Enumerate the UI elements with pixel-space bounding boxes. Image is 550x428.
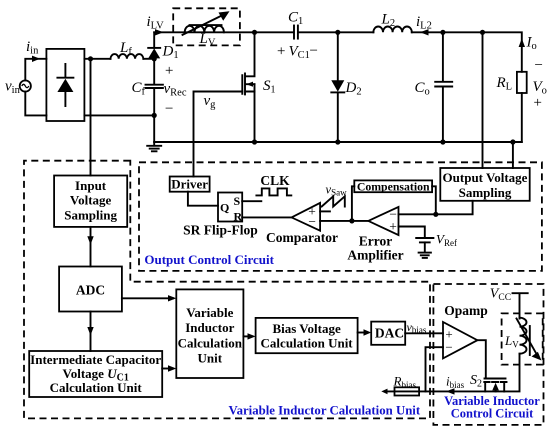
svg-text:Inductor: Inductor: [185, 320, 234, 335]
resistor RL: [517, 72, 527, 93]
svg-text:Calculation Unit: Calculation Unit: [50, 380, 143, 395]
svg-text:−: −: [309, 43, 319, 59]
box driver: [170, 177, 210, 192]
box DAC: [371, 322, 405, 345]
box compensation: [354, 180, 432, 192]
wire S input: [242, 200, 261, 202]
svg-text:Calculation: Calculation: [178, 336, 243, 351]
svg-text:CLK: CLK: [260, 173, 290, 188]
svg-text:−: −: [164, 101, 174, 117]
svg-text:−: −: [445, 340, 452, 355]
svg-text:Opamp: Opamp: [444, 303, 488, 318]
wire to input voltage sampling: [90, 59, 92, 176]
wire rail to C1: [255, 31, 294, 33]
box intermediate capacitor voltage UC1 calculation unit: [29, 351, 162, 397]
vcc T symbol: [513, 293, 528, 318]
node D2 bottom on rail: [335, 139, 340, 144]
diode D1: [148, 32, 160, 59]
wire UC1 calc to variable inductor calculation unit: [162, 368, 173, 370]
svg-text:Comparator: Comparator: [266, 230, 338, 245]
svg-text:Output Control Circuit: Output Control Circuit: [144, 252, 274, 267]
dashed box output control circuit: [139, 162, 542, 271]
inductor L2: [373, 26, 411, 32]
arrow Io: [519, 39, 525, 48]
wire vin bottom to rectifier: [25, 92, 46, 116]
svg-text:Unit: Unit: [198, 351, 223, 366]
svg-text:−: −: [534, 58, 544, 74]
box output voltage sampling: [440, 168, 529, 201]
capacitor C1: [294, 26, 298, 39]
node compensation tap: [349, 218, 354, 223]
ground: [147, 142, 161, 151]
node error amp - input: [433, 212, 438, 217]
box input voltage sampling: [54, 176, 127, 227]
box ADC: [59, 267, 122, 312]
wire rail to RL: [483, 32, 522, 72]
svg-text:+: +: [276, 44, 286, 60]
inductor Lf: [111, 54, 144, 59]
svg-text:Q: Q: [220, 201, 229, 215]
bottom rail: [154, 141, 522, 143]
node output sense top: [480, 30, 485, 35]
wire tap to compensation: [352, 186, 354, 221]
svg-text:R: R: [234, 209, 243, 223]
wire R input from comparator: [242, 216, 291, 218]
svg-text:Driver: Driver: [171, 177, 208, 192]
wire opamp output to S2 gate: [477, 340, 485, 377]
ac source vin: [20, 80, 31, 91]
wire bottom sense to output voltage sampling: [512, 142, 514, 168]
wire ibias line: [386, 390, 505, 392]
svg-text:Sampling: Sampling: [459, 185, 512, 200]
capacitor Cf: [146, 59, 163, 116]
arrow iLV: [155, 29, 164, 35]
wire vin top to rectifier: [25, 59, 46, 81]
wire top rail left: [154, 31, 254, 33]
wire rail D2 to L2: [338, 31, 374, 33]
variable inductor LV: [183, 11, 230, 35]
battery VRef: [416, 238, 433, 252]
svg-text:Amplifier: Amplifier: [347, 248, 403, 263]
svg-text:−: −: [308, 214, 316, 229]
wire DAC to opamp +: [405, 332, 443, 334]
node output sense bottom: [510, 139, 515, 144]
node rectifier output: [88, 56, 93, 61]
svg-text:Bias Voltage: Bias Voltage: [272, 321, 340, 336]
svg-text:Output Voltage: Output Voltage: [443, 170, 528, 185]
op-amp error amplifier: [368, 207, 398, 235]
mosfet S1: [242, 32, 254, 142]
node S1 drain / C1 left: [252, 30, 257, 35]
wire opamp - input: [426, 347, 444, 391]
diode D2: [331, 32, 344, 142]
rectifier diode symbol: [57, 64, 73, 106]
svg-text:+: +: [164, 63, 174, 79]
wire sense top to output voltage sampling: [482, 32, 484, 168]
arrow iL2: [420, 29, 429, 35]
wire IVS to ADC with arrow: [90, 227, 92, 267]
wire comparator - to error amp: [320, 220, 368, 222]
svg-text:DAC: DAC: [375, 326, 404, 341]
svg-text:Calculation Unit: Calculation Unit: [261, 336, 354, 351]
arrow ibias: [446, 388, 455, 394]
svg-text:Sampling: Sampling: [64, 207, 117, 222]
dashed region variable inductor calculation unit: [24, 161, 430, 419]
wire rail Co to sampling node: [443, 31, 483, 33]
svg-text:Variable: Variable: [186, 305, 233, 320]
svg-text:Input: Input: [75, 178, 107, 193]
svg-text:Error: Error: [359, 234, 393, 249]
wire LV bottom to S2: [504, 354, 519, 392]
resistor Rbias: [395, 387, 420, 395]
svg-text:ADC: ADC: [76, 283, 105, 298]
arrow wire end left: [381, 389, 387, 395]
node Cf bottom: [152, 113, 157, 118]
node D1 anode / Cf top: [152, 56, 157, 61]
box variable inductor calculation unit: [176, 289, 243, 378]
wire Cf bottom to ground rail: [153, 115, 155, 142]
wire gate vg: [194, 92, 243, 177]
node D2 top: [335, 30, 340, 35]
capacitor Co: [435, 32, 452, 142]
node S1 source on rail: [252, 139, 257, 144]
wire C1 to D2 node: [299, 31, 338, 33]
dashed box variable inductor control circuit: [433, 284, 543, 425]
wire ADC to variable inductor calculation unit: [122, 297, 173, 299]
wire bias to DAC: [358, 332, 368, 334]
op-amp U opamp: [443, 322, 477, 358]
wire VICU to bias voltage calculation: [243, 335, 252, 337]
wire comparator + stub: [320, 210, 330, 212]
rectifier bridge box: [46, 49, 84, 121]
wire RL bottom to rail: [521, 93, 523, 142]
wire compensation right to - line: [432, 186, 436, 214]
wire error amp - input to sampling: [399, 201, 473, 215]
sawtooth vsaw: [322, 196, 345, 206]
dashed box LV right: [502, 313, 543, 364]
wire ADC to UC1 calculation with arrow: [90, 312, 92, 352]
box SR flip-flop: [218, 193, 242, 222]
variable inductor LV right: [517, 318, 542, 361]
svg-text:+: +: [533, 95, 543, 111]
svg-text:SR Flip-Flop: SR Flip-Flop: [183, 223, 258, 238]
wire driver to SR flip-flop: [188, 192, 218, 206]
svg-text:Intermediate Capacitor: Intermediate Capacitor: [30, 352, 161, 367]
svg-text:Variable Inductor Calculation: Variable Inductor Calculation Unit: [229, 404, 421, 418]
clk waveform: [256, 188, 291, 195]
wire error amp + input to vref: [399, 227, 425, 238]
dashed box variable inductor LV: [173, 8, 240, 45]
svg-text:S: S: [234, 194, 241, 208]
wire rectifier out top: [84, 58, 110, 60]
node Co bottom on rail: [440, 139, 445, 144]
node Co top: [440, 30, 445, 35]
svg-text:Control Circuit: Control Circuit: [451, 406, 534, 420]
svg-text:Compensation: Compensation: [357, 179, 430, 193]
svg-text:+: +: [389, 219, 397, 234]
transistor S2: [484, 379, 506, 392]
ground vref: [419, 253, 431, 258]
wire rectifier bottom to Cf: [84, 114, 154, 116]
op-amp comparator: [292, 203, 321, 231]
arrow iin: [32, 56, 40, 62]
wire L2 to Co node: [412, 31, 443, 33]
svg-text:Voltage: Voltage: [70, 193, 112, 208]
box bias voltage calculation unit: [256, 318, 358, 353]
wire Lf to node: [144, 58, 155, 60]
